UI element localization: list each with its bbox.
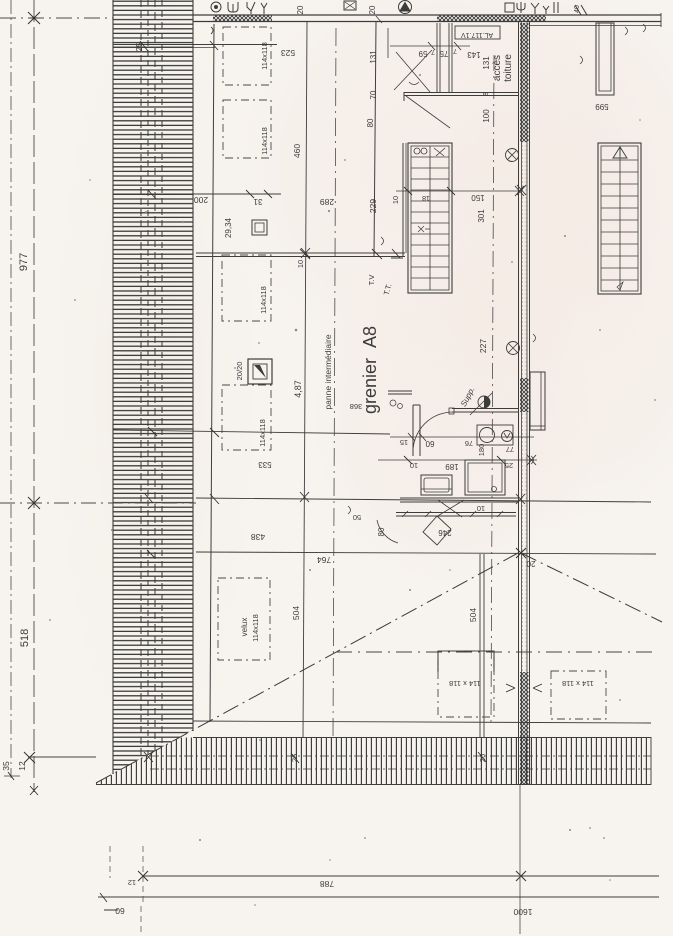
window niche 599 <box>580 23 628 95</box>
svg-text:panne intermédiaire: panne intermédiaire <box>323 334 333 409</box>
stair left wall <box>391 143 406 258</box>
long vertical line x306 <box>300 22 310 737</box>
svg-text:114x118: 114x118 <box>258 419 267 447</box>
svg-text:20/20: 20/20 <box>235 362 244 381</box>
svg-text:180: 180 <box>477 444 486 457</box>
svg-text:368: 368 <box>350 402 363 411</box>
shower tray <box>465 460 505 495</box>
velux window 5 <box>218 578 270 660</box>
horizontal line y45 <box>113 41 277 51</box>
velux window 2 <box>223 100 271 158</box>
long vertical room line x212 <box>210 24 214 722</box>
dimension line y194 <box>113 190 281 199</box>
svg-text:29,34: 29,34 <box>224 217 233 238</box>
washbasin counter <box>477 425 513 445</box>
svg-text:40: 40 <box>574 5 581 13</box>
label panne intermediaire <box>323 334 333 409</box>
room label grenier A8 <box>360 326 380 414</box>
double wall line y253 <box>196 237 405 259</box>
dimension texts vertical <box>1 5 609 771</box>
circled cross symbol lower <box>507 342 520 355</box>
wall crossing slashes <box>144 494 486 763</box>
roof hip right diagonal <box>521 553 662 622</box>
svg-text:50: 50 <box>353 513 361 522</box>
svg-text:7: 7 <box>431 48 435 55</box>
svg-text:20: 20 <box>526 559 535 568</box>
svg-text:246: 246 <box>438 528 452 537</box>
svg-text:25: 25 <box>135 42 144 51</box>
right stair ladder <box>598 143 641 294</box>
svg-text:114 x 118: 114 x 118 <box>562 679 594 688</box>
handwritten Supp note <box>459 385 477 408</box>
svg-text:533: 533 <box>258 460 272 469</box>
svg-text:143: 143 <box>467 50 481 59</box>
svg-text:20: 20 <box>296 5 305 14</box>
svg-text:599: 599 <box>595 102 609 111</box>
svg-text:1600: 1600 <box>513 907 532 917</box>
bathroom south wall <box>396 498 519 517</box>
svg-text:accès: accès <box>492 55 503 81</box>
svg-text:59: 59 <box>418 49 427 58</box>
door swing cross at stairhead <box>394 50 450 128</box>
bathroom dim line y437 <box>390 433 534 441</box>
svg-text:31: 31 <box>253 197 262 206</box>
lower door arc 80 <box>348 506 398 543</box>
svg-text:10: 10 <box>391 196 400 204</box>
label acces toiture <box>492 54 514 82</box>
left dimension column line A <box>0 0 196 795</box>
svg-text:131: 131 <box>482 56 491 70</box>
boxed annotation <box>455 26 500 39</box>
velux window 4 <box>222 385 271 450</box>
svg-text:189: 189 <box>445 462 459 471</box>
svg-text:131: 131 <box>369 50 378 64</box>
roof window bottom left <box>438 651 494 717</box>
stair ladder center <box>408 143 452 293</box>
right thick wall strip <box>519 22 530 784</box>
dimension line y46 top <box>376 16 470 58</box>
svg-text:504: 504 <box>291 606 301 620</box>
bathroom door arc <box>413 412 453 452</box>
svg-text:12: 12 <box>128 878 136 887</box>
partition line x375 <box>374 22 376 256</box>
svg-text:20: 20 <box>368 5 377 14</box>
svg-text:114x118: 114x118 <box>260 42 269 70</box>
svg-text:12: 12 <box>17 761 27 771</box>
svg-text:80: 80 <box>377 527 386 536</box>
svg-text:75: 75 <box>439 49 448 58</box>
long line y500 <box>196 494 651 504</box>
svg-text:764: 764 <box>317 555 331 565</box>
bottom dim line 788 <box>110 785 659 934</box>
svg-text:AL.117.1V: AL.117.1V <box>461 31 494 38</box>
svg-text:60: 60 <box>115 906 125 916</box>
svg-text:10: 10 <box>296 260 305 268</box>
svg-text:70: 70 <box>369 90 378 99</box>
svg-text:460: 460 <box>292 144 302 158</box>
svg-text:velux: velux <box>240 618 249 637</box>
svg-text:8: 8 <box>483 92 490 96</box>
svg-text:toiture: toiture <box>503 54 514 82</box>
velux window 3 <box>222 255 271 321</box>
svg-text:150: 150 <box>471 193 485 202</box>
svg-text:518: 518 <box>19 629 31 647</box>
stair dimension line y191 <box>396 186 524 196</box>
post 20x20 upper <box>252 220 267 235</box>
svg-text:114 x 118: 114 x 118 <box>449 679 481 688</box>
velux window 1 <box>223 27 271 85</box>
svg-text:76: 76 <box>465 439 473 448</box>
svg-text:289: 289 <box>320 197 334 207</box>
svg-text:504: 504 <box>468 608 478 622</box>
svg-text:200: 200 <box>194 195 208 205</box>
dimension texts inverted <box>115 47 594 917</box>
svg-text:438: 438 <box>251 532 265 542</box>
svg-text:60: 60 <box>425 439 434 448</box>
svg-text:229: 229 <box>368 199 378 213</box>
roof window bottom right <box>551 671 606 719</box>
svg-text:114x118: 114x118 <box>251 614 260 642</box>
purlin double line x482 <box>480 554 484 737</box>
svg-text:T.V: T.V <box>367 275 376 286</box>
left hatched wall <box>113 0 193 774</box>
svg-text:301: 301 <box>477 209 486 223</box>
bottom dim line 1600 <box>98 893 659 910</box>
support column note circle <box>470 393 492 415</box>
svg-text:788: 788 <box>320 879 334 889</box>
svg-text:4,87: 4,87 <box>293 380 303 398</box>
svg-text:15: 15 <box>400 438 408 447</box>
dimension line y431 <box>113 427 390 437</box>
stairhead wall y93 <box>404 23 518 101</box>
svg-text:77: 77 <box>506 445 514 454</box>
eaves line y553 <box>196 548 656 558</box>
basin shelf wall <box>388 391 412 409</box>
bottom hatched band <box>96 737 651 785</box>
lower door leaf diamond <box>423 516 451 545</box>
svg-text:977: 977 <box>18 253 30 271</box>
svg-text:80: 80 <box>366 118 375 127</box>
lower door cross <box>436 500 464 517</box>
svg-text:7: 7 <box>453 47 457 54</box>
bathroom dim line y460 <box>378 455 537 465</box>
svg-text:10: 10 <box>477 504 485 513</box>
wall tick arrows near band <box>506 185 542 692</box>
svg-text:25: 25 <box>505 461 513 470</box>
dash-dot line x493 <box>491 55 494 722</box>
roof hip left diagonal <box>96 553 518 783</box>
niche chimney right of wall <box>530 334 545 430</box>
center dash-dot line x335 <box>333 28 336 737</box>
svg-text:10: 10 <box>410 461 418 470</box>
svg-text:114x118: 114x118 <box>259 286 268 314</box>
top wall double line <box>193 13 661 32</box>
ridge dash line y652 <box>336 651 653 653</box>
svg-text:35: 35 <box>1 761 11 771</box>
circled cross symbol on wall <box>506 149 519 162</box>
svg-text:18: 18 <box>422 194 430 201</box>
top plumbing symbols <box>211 1 587 16</box>
svg-text:114x118: 114x118 <box>260 127 269 155</box>
svg-text:227: 227 <box>478 339 488 353</box>
handwritten TV TT notes <box>367 275 393 297</box>
svg-text:100: 100 <box>482 109 491 123</box>
post 20x20 lower <box>248 359 272 384</box>
room line y722 <box>193 721 651 723</box>
bathroom north wall <box>413 405 519 456</box>
svg-text:523: 523 <box>281 48 295 58</box>
WC cistern <box>421 475 452 495</box>
svg-text:grenier A8: grenier A8 <box>360 326 380 414</box>
